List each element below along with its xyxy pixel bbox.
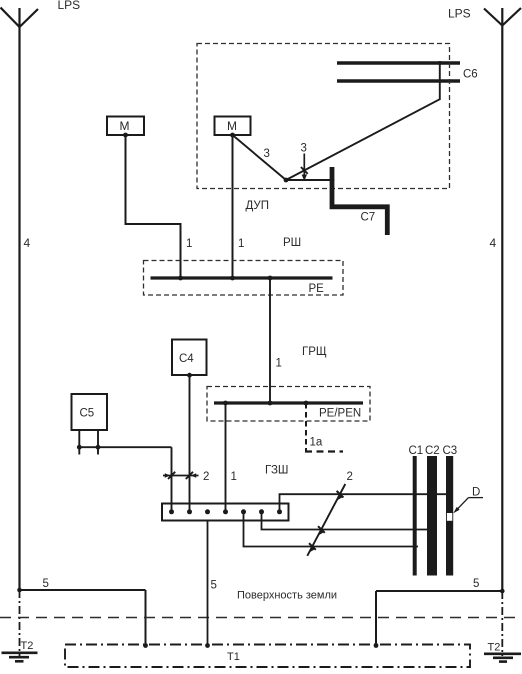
svg-text:T2: T2: [21, 640, 34, 652]
svg-text:4: 4: [490, 236, 497, 250]
svg-text:1: 1: [231, 471, 237, 483]
svg-text:ГЗШ: ГЗШ: [265, 465, 288, 477]
svg-text:3: 3: [264, 148, 270, 160]
svg-text:C2: C2: [425, 445, 440, 457]
svg-text:1a: 1a: [310, 437, 323, 449]
svg-text:2: 2: [203, 471, 209, 483]
svg-text:5: 5: [473, 578, 479, 590]
svg-text:LPS: LPS: [448, 7, 471, 21]
svg-text:РШ: РШ: [283, 237, 301, 249]
svg-text:C3: C3: [443, 445, 458, 457]
svg-text:PE/PEN: PE/PEN: [319, 408, 361, 420]
svg-text:Поверхность земли: Поверхность земли: [237, 590, 337, 602]
svg-text:1: 1: [238, 238, 244, 250]
svg-text:C7: C7: [361, 212, 376, 224]
svg-text:T1: T1: [227, 651, 240, 663]
svg-text:5: 5: [211, 580, 217, 592]
svg-text:5: 5: [43, 578, 49, 590]
svg-text:D: D: [472, 487, 480, 499]
svg-text:PE: PE: [309, 283, 325, 295]
svg-text:ГРЩ: ГРЩ: [302, 346, 327, 358]
svg-text:C5: C5: [80, 408, 95, 420]
svg-text:C6: C6: [463, 69, 478, 81]
svg-text:ДУП: ДУП: [246, 200, 270, 212]
svg-text:C1: C1: [409, 445, 424, 457]
svg-text:4: 4: [24, 236, 31, 250]
svg-text:M: M: [120, 119, 130, 133]
svg-text:1: 1: [276, 358, 282, 370]
svg-text:LPS: LPS: [58, 0, 81, 12]
svg-text:2: 2: [347, 471, 353, 483]
svg-text:M: M: [227, 119, 237, 133]
svg-text:T2: T2: [488, 642, 501, 654]
svg-text:3: 3: [301, 143, 307, 155]
svg-text:C4: C4: [179, 353, 194, 365]
svg-text:1: 1: [186, 238, 192, 250]
